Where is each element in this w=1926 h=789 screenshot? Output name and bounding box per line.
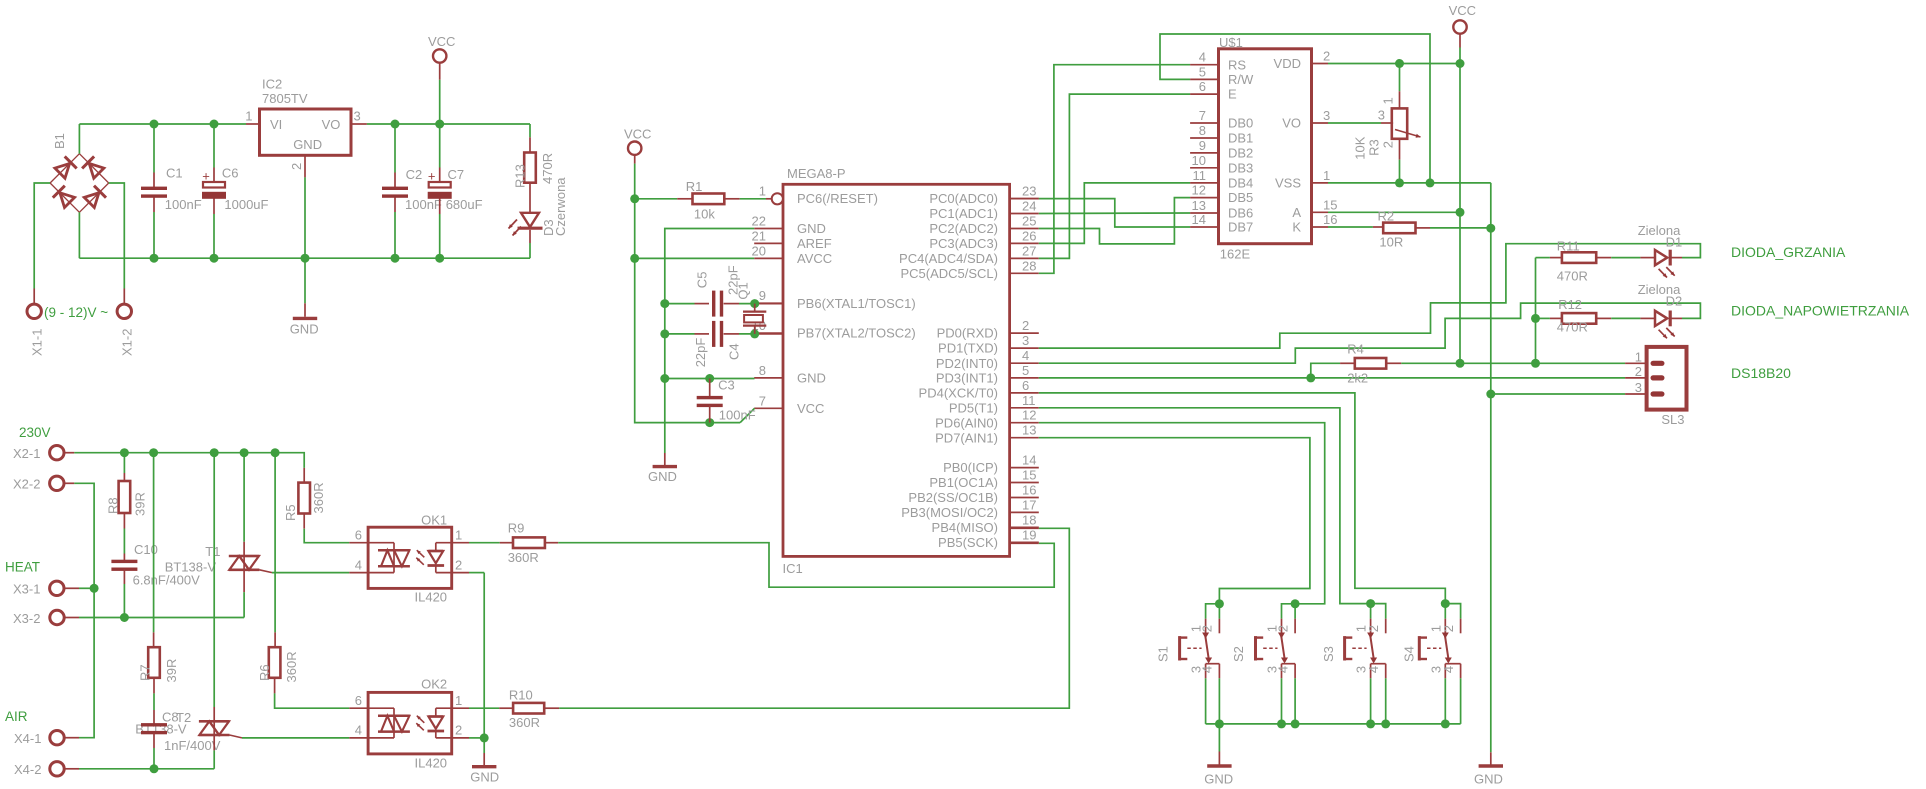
svg-text:22: 22 [752,214,766,229]
svg-text:15: 15 [1323,197,1337,212]
svg-text:RS: RS [1228,57,1246,72]
svg-text:2: 2 [1022,318,1029,333]
svg-text:2: 2 [1381,141,1396,148]
svg-text:C6: C6 [222,166,239,181]
svg-text:PC2(ADC2): PC2(ADC2) [929,221,998,236]
svg-text:C4: C4 [727,343,742,360]
svg-text:11: 11 [1022,393,1036,408]
svg-text:DB0: DB0 [1228,116,1253,131]
svg-text:R8: R8 [106,497,121,514]
svg-text:8: 8 [759,363,766,378]
svg-text:12: 12 [1192,183,1206,198]
svg-text:2: 2 [455,557,462,572]
svg-text:2: 2 [1366,625,1381,632]
svg-text:26: 26 [1022,228,1036,243]
svg-text:162E: 162E [1220,247,1251,262]
svg-text:R6: R6 [257,664,272,681]
svg-text:PC0(ADC0): PC0(ADC0) [929,191,998,206]
svg-text:PB2(SS/OC1B): PB2(SS/OC1B) [908,490,998,505]
svg-text:S1: S1 [1156,646,1171,662]
svg-text:PC4(ADC4/SDA): PC4(ADC4/SDA) [899,251,998,266]
svg-text:14: 14 [1022,453,1036,468]
svg-text:VCC: VCC [624,126,651,141]
svg-text:12: 12 [1022,408,1036,423]
svg-text:28: 28 [1022,258,1036,273]
svg-text:360R: 360R [509,715,540,730]
svg-text:VCC: VCC [797,401,824,416]
svg-text:7805TV: 7805TV [262,91,308,106]
svg-text:GND: GND [797,371,826,386]
svg-text:R7: R7 [138,664,153,681]
svg-text:3: 3 [1323,108,1330,123]
svg-text:470R: 470R [1557,319,1588,334]
svg-text:1: 1 [759,184,766,199]
svg-text:OK1: OK1 [421,513,447,528]
svg-text:11: 11 [1193,168,1207,183]
svg-text:13: 13 [1192,198,1206,213]
svg-text:DIODA_GRZANIA: DIODA_GRZANIA [1731,244,1846,260]
svg-text:PD4(XCK/T0): PD4(XCK/T0) [919,386,998,401]
svg-text:4: 4 [1275,666,1290,673]
svg-text:4: 4 [355,723,362,738]
svg-text:230V: 230V [19,425,51,440]
svg-text:D2: D2 [1666,293,1683,308]
svg-text:GND: GND [470,770,499,785]
svg-text:Czerwona: Czerwona [553,177,568,236]
svg-text:S4: S4 [1402,646,1417,662]
svg-text:1: 1 [1635,350,1642,365]
svg-text:1: 1 [1323,168,1330,183]
svg-text:PB5(SCK): PB5(SCK) [938,535,998,550]
svg-text:4: 4 [1366,666,1381,673]
svg-text:PD6(AIN0): PD6(AIN0) [935,415,998,430]
svg-text:BT138-V: BT138-V [165,560,217,575]
svg-text:U$1: U$1 [1219,35,1243,50]
svg-text:3: 3 [1022,333,1029,348]
svg-text:680uF: 680uF [446,197,483,212]
svg-text:3: 3 [354,109,361,124]
svg-text:X3-2: X3-2 [13,611,40,626]
svg-text:360R: 360R [508,550,539,565]
svg-text:GND: GND [648,469,677,484]
svg-text:PD1(TXD): PD1(TXD) [938,341,998,356]
svg-text:2: 2 [1275,625,1290,632]
svg-text:SL3: SL3 [1661,412,1684,427]
svg-text:DB2: DB2 [1228,146,1253,161]
svg-text:X4-1: X4-1 [14,731,41,746]
svg-text:AIR: AIR [5,709,28,724]
svg-text:VCC: VCC [1449,3,1476,18]
svg-text:GND: GND [290,322,319,337]
svg-text:2: 2 [1441,625,1456,632]
svg-text:6: 6 [355,528,362,543]
svg-text:T1: T1 [205,544,220,559]
svg-text:DB6: DB6 [1228,206,1253,221]
svg-text:K: K [1292,220,1301,235]
svg-text:X2-2: X2-2 [13,477,40,492]
svg-text:R12: R12 [1558,297,1582,312]
svg-text:39R: 39R [133,492,148,516]
svg-text:6.8nF/400V: 6.8nF/400V [133,573,201,588]
svg-text:7: 7 [759,393,766,408]
svg-text:S3: S3 [1321,646,1336,662]
svg-text:9: 9 [759,288,766,303]
svg-text:R4: R4 [1347,342,1364,357]
svg-text:MEGA8-P: MEGA8-P [787,166,846,181]
svg-text:100nF: 100nF [405,197,442,212]
svg-text:PC6(/RESET): PC6(/RESET) [797,191,878,206]
svg-text:R13: R13 [512,164,527,188]
svg-text:VO: VO [1282,116,1301,131]
svg-text:10k: 10k [694,207,715,222]
svg-text:4: 4 [1441,666,1456,673]
svg-text:Q1: Q1 [736,282,751,299]
svg-text:AREF: AREF [797,236,832,251]
svg-text:9: 9 [1199,138,1206,153]
svg-text:E: E [1228,87,1237,102]
svg-text:10: 10 [1192,153,1206,168]
svg-text:7: 7 [1199,108,1206,123]
svg-text:IL420: IL420 [415,756,448,771]
svg-text:20: 20 [752,243,766,258]
svg-text:PD7(AIN1): PD7(AIN1) [935,430,998,445]
svg-text:PB7(XTAL2/TOSC2): PB7(XTAL2/TOSC2) [797,326,916,341]
svg-text:OK2: OK2 [421,677,447,692]
svg-text:R1: R1 [686,179,703,194]
svg-text:VO: VO [322,117,341,132]
svg-text:6: 6 [1022,378,1029,393]
svg-text:23: 23 [1022,184,1036,199]
svg-text:X3-1: X3-1 [13,582,40,597]
svg-text:C2: C2 [406,167,423,182]
svg-text:PD0(RXD): PD0(RXD) [937,326,998,341]
svg-text:B1: B1 [52,133,67,149]
svg-text:1000uF: 1000uF [224,197,268,212]
svg-text:8: 8 [1199,123,1206,138]
svg-text:PB0(ICP): PB0(ICP) [943,460,998,475]
svg-text:X1-1: X1-1 [30,329,45,356]
svg-text:1: 1 [245,109,252,124]
svg-text:2: 2 [455,723,462,738]
svg-text:1: 1 [455,528,462,543]
svg-text:(9 - 12)V ~: (9 - 12)V ~ [44,305,108,320]
svg-text:VDD: VDD [1274,56,1301,71]
svg-text:10R: 10R [1379,235,1403,250]
svg-text:PC1(ADC1): PC1(ADC1) [929,206,998,221]
svg-text:2: 2 [1635,364,1642,379]
svg-text:R2: R2 [1378,209,1395,224]
svg-text:DB5: DB5 [1228,190,1253,205]
svg-text:R5: R5 [283,504,298,521]
svg-text:4: 4 [1199,50,1206,65]
svg-text:VCC: VCC [428,34,455,49]
svg-text:R11: R11 [1557,239,1580,254]
svg-text:15: 15 [1022,468,1036,483]
svg-text:25: 25 [1022,214,1036,229]
svg-text:GND: GND [293,137,322,152]
svg-text:100nF: 100nF [165,197,202,212]
svg-text:PC5(ADC5/SCL): PC5(ADC5/SCL) [900,266,998,281]
svg-text:24: 24 [1022,199,1036,214]
svg-text:GND: GND [1474,772,1503,787]
svg-text:19: 19 [1022,527,1036,542]
svg-text:A: A [1292,205,1301,220]
svg-text:4: 4 [1022,348,1029,363]
svg-text:X4-2: X4-2 [14,762,41,777]
svg-text:13: 13 [1022,423,1036,438]
svg-text:360R: 360R [284,651,299,682]
svg-text:R/W: R/W [1228,72,1254,87]
svg-text:VI: VI [270,117,282,132]
svg-text:X2-1: X2-1 [13,446,40,461]
svg-text:C1: C1 [166,166,183,181]
svg-text:4: 4 [1200,666,1215,673]
svg-text:3: 3 [1378,108,1385,123]
svg-text:PB1(OC1A): PB1(OC1A) [929,475,998,490]
svg-text:C7: C7 [448,167,465,182]
svg-text:6: 6 [355,693,362,708]
svg-text:PD2(INT0): PD2(INT0) [936,356,998,371]
svg-text:10K: 10K [1353,136,1368,159]
svg-text:+: + [202,169,210,184]
svg-text:2: 2 [1323,49,1330,64]
svg-text:21: 21 [752,228,766,243]
svg-text:360R: 360R [311,482,326,513]
svg-text:1: 1 [455,693,462,708]
svg-text:22pF: 22pF [693,338,708,368]
svg-text:PD5(T1): PD5(T1) [949,400,998,415]
svg-text:R10: R10 [509,687,533,702]
svg-text:5: 5 [1022,363,1029,378]
svg-text:18: 18 [1022,512,1036,527]
svg-text:100nF: 100nF [719,408,756,423]
svg-text:470R: 470R [1557,269,1588,284]
svg-text:2: 2 [289,163,304,170]
svg-text:C3: C3 [718,378,735,393]
svg-text:DB4: DB4 [1228,176,1253,191]
svg-text:R3: R3 [1367,139,1382,156]
svg-text:1nF/400V: 1nF/400V [164,738,221,753]
svg-text:16: 16 [1022,483,1036,498]
svg-text:3: 3 [1635,380,1642,395]
svg-text:X1-2: X1-2 [120,329,135,356]
svg-text:IC2: IC2 [262,77,282,92]
svg-text:1: 1 [1381,97,1396,104]
svg-text:PB6(XTAL1/TOSC1): PB6(XTAL1/TOSC1) [797,296,916,311]
svg-text:DS18B20: DS18B20 [1731,365,1791,381]
svg-text:HEAT: HEAT [5,560,40,575]
svg-text:DB7: DB7 [1228,220,1253,235]
svg-text:5: 5 [1199,64,1206,79]
svg-text:27: 27 [1022,243,1036,258]
svg-text:DB1: DB1 [1228,131,1253,146]
svg-text:14: 14 [1192,212,1206,227]
svg-text:D1: D1 [1666,234,1683,249]
svg-text:GND: GND [797,221,826,236]
svg-text:2k2: 2k2 [1347,371,1368,386]
svg-text:IC1: IC1 [783,561,803,576]
svg-text:PC3(ADC3): PC3(ADC3) [929,236,998,251]
svg-text:PD3(INT1): PD3(INT1) [936,371,998,386]
svg-text:4: 4 [355,557,362,572]
svg-text:16: 16 [1323,212,1337,227]
svg-text:IL420: IL420 [415,590,448,605]
svg-text:S2: S2 [1231,646,1246,662]
svg-text:R9: R9 [508,521,525,536]
svg-text:39R: 39R [164,659,179,683]
svg-text:AVCC: AVCC [797,251,832,266]
svg-text:VSS: VSS [1275,176,1301,191]
svg-text:C5: C5 [695,272,710,289]
svg-text:PB4(MISO): PB4(MISO) [932,520,998,535]
svg-text:6: 6 [1199,79,1206,94]
svg-text:PB3(MOSI/OC2): PB3(MOSI/OC2) [901,505,998,520]
svg-text:DB3: DB3 [1228,160,1253,175]
svg-text:GND: GND [1204,772,1233,787]
svg-text:DIODA_NAPOWIETRZANIA: DIODA_NAPOWIETRZANIA [1731,303,1910,319]
svg-text:17: 17 [1022,497,1036,512]
svg-text:+: + [428,169,436,184]
svg-text:2: 2 [1200,625,1215,632]
